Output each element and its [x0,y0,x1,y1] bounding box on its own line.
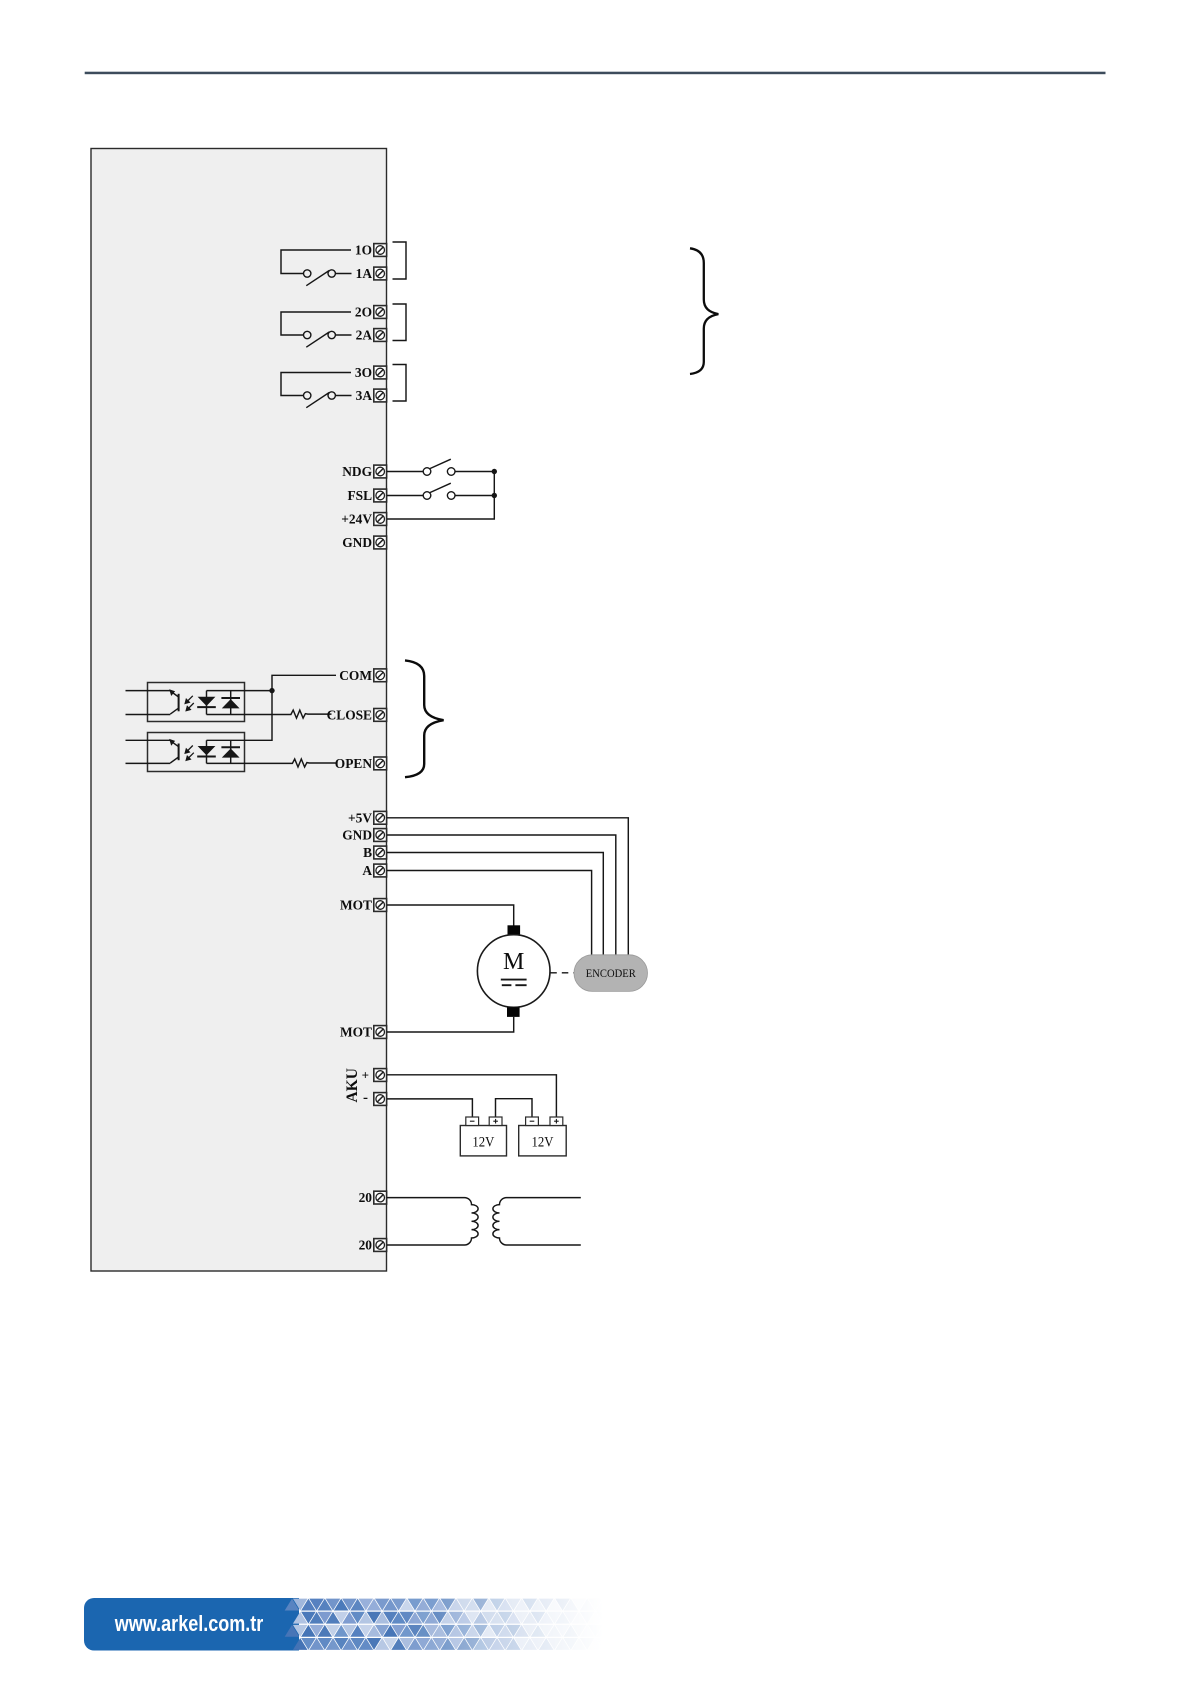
dashed link motor to encoder [550,972,574,974]
wire from FSL terminal [387,495,423,497]
battery BT1 plus tab [489,1117,502,1126]
optocoupler U2 light arrows [185,746,194,761]
terminal NDG [374,465,387,478]
CLOSE wire with resistor [207,710,332,718]
svg-text:2O: 2O [355,305,372,320]
battery BT2 plus tab [550,1117,563,1126]
motor top brush terminal [508,925,521,935]
switch blade [306,393,329,408]
wire AKU- to battery 1 [387,1099,472,1117]
svg-text:12V: 12V [532,1134,554,1150]
junction dot COM bus [269,688,274,693]
optocoupler U2 left lead wires [126,740,171,763]
switch blade [306,332,329,347]
optocoupler U1 diode down [198,697,216,706]
svg-text:+5V: +5V [348,810,372,825]
switch blade [306,271,329,286]
optocoupler U2 LED pair branch wires [207,740,231,763]
svg-text:+24V: +24V [341,512,372,527]
controller board panel [91,149,387,1272]
wire to +24V bus [455,471,494,473]
terminal B [374,846,387,859]
OPEN wire with resistor [207,759,336,767]
battery BT1 minus tab [466,1117,479,1126]
switch on FSL line [387,483,494,499]
terminal 2O [374,306,387,319]
svg-text:NDG: NDG [342,464,372,479]
wire GND to encoder [387,835,616,965]
wire from NDG terminal [387,471,423,473]
terminal 3O [374,366,387,379]
optocoupler U2 box [148,733,245,772]
curly brace (relay outputs group) [690,248,718,374]
svg-text:3A: 3A [356,388,373,403]
svg-text:FSL: FSL [347,488,372,503]
svg-text:B: B [363,845,372,860]
optocoupler U1 light arrows [185,696,194,711]
optocoupler U1 diode up [222,699,240,708]
svg-text:-: - [363,1090,368,1106]
optocoupler U2 diode up [222,748,240,757]
transformer T1 secondary winding [493,1198,581,1245]
svg-text:GND: GND [342,535,372,550]
junction dot FSL/+24V [492,493,497,498]
svg-text:12V: 12V [472,1134,494,1150]
contact throw circle [328,392,335,399]
terminal 3A [374,389,387,402]
bracket for pair 1O/1A [393,242,407,279]
wire U1 top output to COM bus [207,690,273,692]
svg-text:AKU: AKU [344,1068,361,1102]
optocoupler U1 box [148,683,245,722]
battery BT2 minus tab [526,1117,539,1126]
terminal +24V [374,513,387,526]
optocoupler U2 phototransistor [170,741,178,763]
svg-text:3O: 3O [355,365,372,380]
svg-text:1A: 1A [356,266,373,281]
wire to 2A terminal [335,334,351,336]
svg-text:20: 20 [359,1238,373,1253]
COM wire with vertical bus [245,675,337,740]
wire to +24V bus [455,495,494,497]
terminal MOT-top [374,899,387,912]
svg-text:COM: COM [339,668,372,683]
terminal 20-top [374,1191,387,1204]
svg-text:+: + [362,1067,369,1082]
transformer T1 primary winding [387,1198,478,1245]
svg-text:1O: 1O [355,243,372,258]
contact pole circle [304,270,311,277]
svg-text:OPEN: OPEN [335,756,373,771]
svg-text:GND: GND [342,828,372,843]
switch on NDG line [387,459,494,475]
series link battery1+ to battery2- [496,1099,533,1117]
svg-text:www.arkel.com.tr: www.arkel.com.tr [114,1611,263,1636]
bracket for pair 3O/3A [393,365,407,402]
wire 2O row [281,312,351,335]
motor DC symbol [501,979,527,981]
terminal AKU- [374,1093,387,1106]
svg-text:ENCODER: ENCODER [586,966,636,980]
optocoupler U2 diode down [198,746,216,755]
svg-text:M: M [503,949,524,975]
terminal FSL [374,489,387,502]
terminal CLOSE [374,709,387,722]
wire MOT to motor bottom [387,1017,514,1032]
optocoupler U1 phototransistor [170,691,178,714]
terminal GND-enc [374,829,387,842]
relay contact K2 [281,312,352,347]
terminal 2A [374,329,387,342]
svg-text:2A: 2A [356,328,373,343]
relay contact K3 [281,373,352,408]
wire 3O row [281,373,351,396]
wire U2 top rail [207,739,245,741]
terminal OPEN [374,757,387,770]
battery BT1 [460,1126,506,1156]
contact throw circle [328,270,335,277]
contact throw circle [328,331,335,338]
svg-text:20: 20 [359,1190,373,1205]
svg-text:MOT: MOT [340,898,372,913]
optocoupler U1 left lead wires [126,691,171,715]
+24V bus vertical wire [387,472,494,520]
wire to 1A terminal [335,273,351,275]
contact pole circle [304,331,311,338]
wire MOT to motor top [387,905,514,926]
terminal MOT-bottom [374,1026,387,1039]
motor M1 [477,935,550,1008]
svg-text:A: A [362,863,372,878]
footer bar [84,1598,644,1651]
bracket for pair 2O/2A [393,304,407,341]
terminal GND [374,536,387,549]
switch blade [429,459,451,469]
wire to 3A terminal [335,395,351,397]
terminal +5V [374,811,387,824]
optocoupler U1 LED pair branch wires [207,691,231,715]
terminal 20-bottom [374,1239,387,1252]
svg-text:CLOSE: CLOSE [327,707,372,722]
terminal AKU+ [374,1069,387,1082]
wire B to encoder [387,853,603,966]
switch blade [429,483,451,493]
footer triangle mosaic [285,1599,300,1611]
relay contact K1 [281,250,352,286]
junction dot NDG/+24V [492,469,497,474]
terminal 1O [374,244,387,257]
svg-text:MOT: MOT [340,1025,372,1040]
contact pole circle [304,392,311,399]
terminal COM [374,669,387,682]
encoder body [574,955,648,992]
footer solid blue area [84,1598,299,1651]
battery BT2 [519,1126,567,1156]
terminal 1A [374,267,387,280]
header rule [85,72,1106,75]
motor bottom brush terminal [507,1007,520,1017]
wire AKU+ to battery 2 [387,1075,556,1117]
wire +5V to encoder [387,818,628,965]
curly brace (door command inputs group) [405,660,444,777]
wire A to encoder [387,871,592,966]
terminal A [374,864,387,877]
wire 1O row [281,250,351,274]
